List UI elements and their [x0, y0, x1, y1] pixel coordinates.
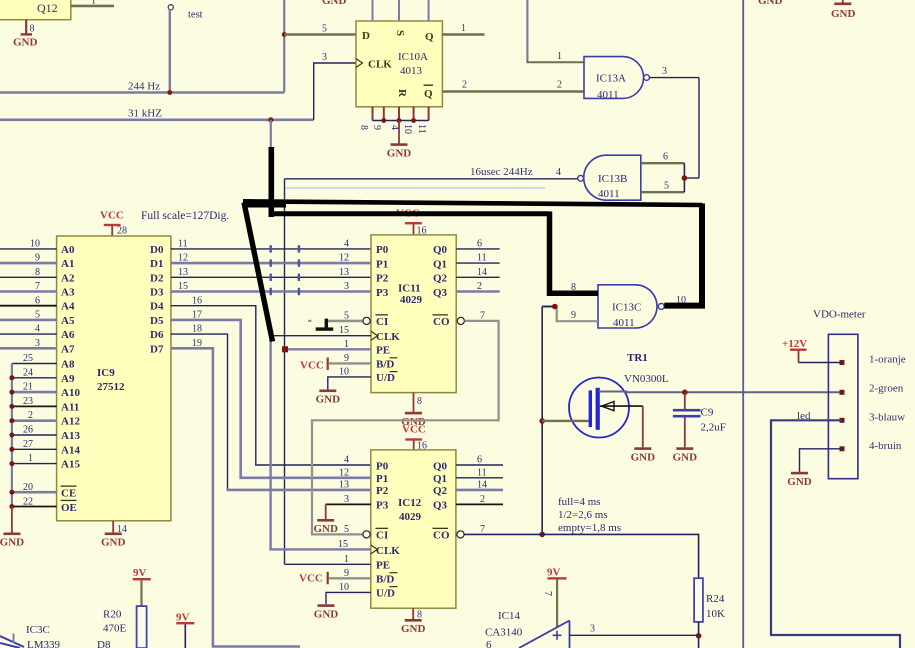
svg-text:3: 3 [344, 494, 349, 505]
svg-text:A14: A14 [61, 444, 80, 456]
svg-text:IC9: IC9 [97, 367, 115, 379]
svg-text:Q0: Q0 [433, 244, 448, 256]
junction PE tee [282, 346, 288, 352]
svg-text:4013: 4013 [400, 65, 423, 77]
svg-text:9V: 9V [547, 567, 561, 579]
wire IC11 B/D pin 9 [329, 362, 372, 364]
wires IC9 A0-A7 from left edge [0, 248, 57, 250]
IC12 pin numbers [338, 455, 349, 593]
wire IC12 P3 to ground [326, 503, 371, 505]
svg-text:A9: A9 [61, 373, 75, 385]
svg-text:9V: 9V [176, 612, 190, 624]
wire gate drive riser [541, 307, 543, 535]
svg-text:full=4 ms: full=4 ms [558, 496, 601, 508]
wire IC11 CO to IC12 CI cascade [457, 317, 464, 324]
wire IC11 CLK pin 15 [271, 335, 371, 337]
wire Q12 pin 1 [71, 5, 114, 8]
transistor Q12 (partial box top-left) [0, 0, 71, 20]
svg-text:3: 3 [344, 281, 349, 292]
svg-text:A6: A6 [61, 329, 75, 341]
svg-text:D0: D0 [150, 244, 164, 256]
svg-text:TR1: TR1 [627, 352, 648, 364]
svg-text:P2: P2 [376, 485, 389, 497]
svg-text:4029: 4029 [400, 294, 423, 306]
svg-text:IC12: IC12 [398, 497, 422, 509]
svg-text:Full scale=127Dig.: Full scale=127Dig. [141, 210, 229, 222]
svg-text:1/2=2,6 ms: 1/2=2,6 ms [558, 509, 608, 521]
svg-text:P1: P1 [376, 258, 388, 270]
svg-text:Q3: Q3 [433, 500, 448, 512]
wire R24 bottom [698, 622, 700, 648]
svg-text:A15: A15 [61, 459, 80, 471]
svg-text:A12: A12 [61, 416, 80, 428]
svg-text:VCC: VCC [299, 573, 323, 585]
svg-text:4: 4 [344, 455, 349, 466]
wire faint unused trace [286, 187, 546, 189]
wire IC12 Q1 stub [456, 477, 503, 479]
nand gate IC13B 4011 (mirrored) [584, 155, 641, 200]
wire IC11 Q2 stub [456, 276, 500, 278]
svg-text:10: 10 [30, 239, 40, 250]
junction 31kHz / clock riser [268, 117, 273, 122]
svg-text:Q3: Q3 [433, 287, 448, 299]
svg-text:27512: 27512 [97, 381, 125, 393]
junction D pin tee [282, 32, 287, 37]
junction gate riser / TR1 gate [539, 418, 545, 424]
svg-text:10: 10 [339, 582, 349, 593]
svg-text:7: 7 [480, 524, 485, 535]
svg-text:1: 1 [28, 453, 33, 464]
wire TR1 gate from riser [542, 420, 588, 422]
wire IC9 ground bus vertical [11, 364, 13, 509]
wire test point down to 244Hz line [169, 10, 171, 93]
svg-text:P2: P2 [376, 273, 389, 285]
IC11 pin numbers [339, 239, 349, 378]
thick highlight wire: right vertical to IC13C output 10 [664, 204, 702, 306]
svg-text:IC3C: IC3C [26, 624, 50, 636]
ground at connector pin 4 [787, 472, 812, 488]
svg-text:11: 11 [178, 239, 188, 250]
svg-text:3: 3 [322, 52, 327, 63]
svg-text:8: 8 [30, 24, 35, 35]
wire long vertical rail [742, 0, 744, 648]
svg-text:PE: PE [376, 345, 390, 357]
svg-text:D8: D8 [97, 639, 111, 648]
svg-text:1: 1 [461, 23, 466, 34]
junction drain / C9 [682, 390, 688, 396]
ground top right corner [842, 0, 844, 3]
wire stubs above IC10A [372, 0, 374, 21]
ground at TR1 [631, 447, 656, 463]
svg-text:9V: 9V [133, 567, 147, 579]
svg-text:D3: D3 [150, 287, 164, 299]
svg-text:CLK: CLK [368, 59, 392, 71]
svg-text:R: R [396, 89, 408, 98]
connector pin squares [840, 360, 845, 365]
svg-text:24: 24 [23, 367, 33, 378]
ground at IC11 U/D [316, 390, 341, 406]
wire TR1 drain to connector pin 2 [599, 391, 842, 394]
svg-text:11: 11 [477, 467, 487, 478]
junction dots on ground bus [9, 375, 14, 509]
svg-text:10K: 10K [706, 608, 725, 620]
svg-text:U/D: U/D [376, 372, 395, 384]
junction test/244Hz [167, 90, 172, 95]
svg-text:CI: CI [376, 530, 388, 542]
wire D2 to IC11 P2 [171, 276, 371, 278]
wire IC12 PE pin 1 [285, 563, 371, 565]
wire 31 kHZ horizontal [0, 119, 314, 122]
svg-text:244 Hz: 244 Hz [128, 81, 160, 93]
junction bus dots [381, 118, 386, 123]
wire D3 to IC11 P3 [171, 290, 371, 293]
wire D7 routed down to comparator [171, 348, 300, 646]
junction IC13B inputs [682, 175, 688, 181]
wire 244Hz up to D pin (IC10A) [283, 35, 285, 93]
svg-text:25: 25 [23, 353, 33, 364]
wire TR1 source/body with arrow [600, 405, 643, 407]
svg-text:VCC: VCC [300, 360, 324, 372]
wire IC11 CI pin 5 [327, 320, 363, 323]
node test point [168, 5, 173, 10]
wire IC11 Q0 stub [456, 248, 500, 250]
svg-text:2: 2 [462, 80, 467, 91]
svg-text:1: 1 [91, 0, 96, 7]
svg-text:B/D: B/D [376, 574, 394, 586]
svg-text:2-groen: 2-groen [869, 383, 904, 395]
wire IC12 Q0 stub [456, 464, 503, 466]
svg-text:7: 7 [480, 310, 485, 321]
svg-text:15: 15 [338, 539, 348, 550]
svg-text:IC13A: IC13A [596, 73, 626, 85]
svg-text:16usec 244Hz: 16usec 244Hz [470, 166, 533, 178]
resistor R20 470E [137, 606, 147, 648]
svg-text:Q2: Q2 [433, 273, 448, 285]
svg-text:A3: A3 [61, 287, 75, 299]
nand gate IC13A 4011 [584, 57, 644, 99]
svg-text:1-oranje: 1-oranje [869, 354, 906, 366]
wire CLK riser down to IC12 CLK [271, 337, 371, 550]
svg-text:13: 13 [178, 267, 188, 278]
capacitor C9 2,2uF [684, 392, 686, 409]
svg-text:GND: GND [13, 37, 38, 49]
svg-text:7: 7 [542, 591, 553, 596]
svg-text:3: 3 [662, 66, 667, 77]
svg-text:5: 5 [322, 24, 327, 35]
svg-text:D: D [362, 30, 370, 42]
wire pin 4 to ground [800, 449, 843, 472]
svg-text:6: 6 [663, 152, 668, 163]
svg-text:16: 16 [192, 295, 202, 306]
IC9 data pin names [150, 244, 164, 355]
ground below IC10A [398, 121, 400, 144]
svg-text:A8: A8 [61, 359, 75, 371]
memory IC9 27512 body [57, 236, 171, 521]
svg-text:C9: C9 [701, 407, 714, 419]
svg-text:1: 1 [557, 51, 562, 62]
wire riser 31kHz to thick segment [270, 120, 272, 150]
svg-text:28: 28 [117, 226, 127, 237]
svg-text:470E: 470E [103, 623, 127, 635]
wire IC11 pin 8 to ground [413, 393, 415, 412]
svg-text:15: 15 [178, 281, 188, 292]
svg-text:D7: D7 [150, 343, 164, 355]
svg-text:IC10A: IC10A [398, 51, 428, 63]
wire IC12 B/D pin 9 [329, 577, 371, 579]
svg-text:4011: 4011 [597, 89, 619, 101]
wire IC13B pin 5 [641, 191, 685, 193]
svg-text:11: 11 [477, 253, 487, 264]
svg-text:P3: P3 [376, 500, 389, 512]
wire D4 routed to IC12 P0 [171, 306, 371, 465]
svg-text:VDO-meter: VDO-meter [813, 309, 866, 321]
thick highlight wire: upper horizontal H1 [243, 201, 703, 205]
thick highlight wire: diagonal to IC11 CLK [244, 203, 273, 342]
wire IC13B input bus vertical [683, 163, 685, 192]
svg-text:A0: A0 [61, 244, 75, 256]
svg-text:R24: R24 [706, 593, 725, 605]
wire PE riser (pin4 net down to PE pins) [284, 179, 286, 565]
svg-text:14: 14 [477, 267, 487, 278]
wire IC11 Q1 stub [456, 262, 500, 264]
svg-text:IC11: IC11 [398, 283, 421, 295]
IC9 left pin numbers [23, 239, 40, 508]
ground at IC12 U/D [314, 604, 339, 620]
svg-text:8: 8 [358, 125, 369, 130]
svg-text:CO: CO [433, 316, 450, 328]
svg-text:11: 11 [416, 124, 427, 134]
ground GND below Q12 [21, 33, 32, 35]
svg-text:CA3140: CA3140 [485, 627, 523, 639]
svg-text:A13: A13 [61, 430, 80, 442]
svg-text:CLK: CLK [376, 545, 400, 557]
wire Q output pin 1 [442, 33, 484, 35]
svg-text:17: 17 [192, 310, 202, 321]
wire stray dash near CI [308, 320, 312, 322]
svg-text:A4: A4 [61, 301, 75, 313]
counter IC11 4029 body [371, 235, 456, 393]
IC9 address pin names [61, 244, 80, 514]
svg-text:6: 6 [477, 239, 482, 250]
wire 16usec 244Hz to IC13B pin 4 [285, 178, 578, 180]
svg-text:18: 18 [192, 324, 202, 335]
wires IC9 A8-A15 stubs to ground bus [12, 363, 57, 365]
svg-text:3: 3 [590, 624, 595, 635]
ground at C9 [673, 447, 698, 463]
svg-text:IC13B: IC13B [598, 173, 627, 185]
wire D6 routed to IC12 P2 [171, 334, 228, 490]
svg-text:A1: A1 [61, 258, 74, 270]
svg-text:GND: GND [758, 0, 783, 7]
wire D input pin 5 [284, 33, 356, 35]
svg-text:A2: A2 [61, 272, 75, 284]
svg-text:2: 2 [480, 494, 485, 505]
svg-text:23: 23 [23, 396, 33, 407]
svg-text:8: 8 [417, 396, 422, 407]
svg-text:8: 8 [35, 267, 40, 278]
svg-text:12: 12 [339, 467, 349, 478]
svg-text:P0: P0 [376, 460, 389, 472]
svg-text:5: 5 [664, 181, 669, 192]
svg-text:CE: CE [61, 488, 76, 500]
svg-text:IC14: IC14 [498, 610, 521, 622]
svg-text:A11: A11 [61, 401, 79, 413]
svg-text:1: 1 [344, 554, 349, 565]
wire IC12 CO pin 7 to R24 [457, 531, 464, 538]
svg-text:Q2: Q2 [433, 485, 448, 497]
svg-text:VN0300L: VN0300L [624, 373, 669, 385]
wire IC12 U/D pin 10 to ground [326, 592, 371, 604]
svg-text:Q1: Q1 [433, 258, 447, 270]
junction pin9 corner [552, 304, 558, 310]
wire CLK riser from 31kHz to pin 3 [314, 63, 356, 120]
svg-text:31 kHZ: 31 kHZ [128, 108, 162, 120]
svg-text:19: 19 [192, 338, 202, 349]
svg-text:GND: GND [831, 8, 856, 20]
svg-text:8: 8 [417, 610, 422, 621]
resistor R24 10K [694, 578, 703, 622]
ground for address bus [11, 507, 13, 533]
wire LM339 partial symbol [0, 636, 24, 647]
wire IC11 Q3 stub [456, 290, 500, 293]
svg-text:6: 6 [486, 639, 492, 648]
svg-text:R20: R20 [103, 609, 122, 621]
transistor TR1 VN0300L mosfet [569, 378, 629, 438]
svg-text:6: 6 [35, 295, 40, 306]
svg-text:CLK: CLK [376, 331, 400, 343]
svg-text:P3: P3 [376, 287, 389, 299]
ground at IC12 P3 [313, 519, 338, 535]
svg-text:CO: CO [433, 530, 450, 542]
wire pin3 down to IC13B input bus [698, 78, 700, 178]
svg-text:U/D: U/D [376, 588, 395, 600]
svg-text:D6: D6 [150, 329, 164, 341]
svg-text:A7: A7 [61, 343, 75, 355]
svg-text:9: 9 [371, 125, 382, 130]
svg-text:12: 12 [178, 253, 188, 264]
svg-text:5: 5 [344, 524, 349, 535]
svg-text:VCC: VCC [402, 424, 426, 436]
svg-text:26: 26 [23, 425, 33, 436]
svg-text:4011: 4011 [598, 188, 620, 200]
svg-text:P1: P1 [376, 473, 388, 485]
svg-text:4029: 4029 [399, 511, 422, 523]
svg-text:27: 27 [23, 439, 33, 450]
wire OE stub [12, 506, 57, 508]
svg-text:P0: P0 [376, 244, 389, 256]
wire IC12 pin 8 to ground [412, 608, 414, 619]
wire D0 to IC11 P0 [171, 248, 371, 250]
node bus crossing dashes [271, 245, 299, 295]
junction R24 / opamp output [696, 633, 702, 639]
svg-text:2,2uF: 2,2uF [701, 422, 726, 434]
svg-text:4-bruin: 4-bruin [869, 440, 902, 452]
svg-text:test: test [188, 10, 203, 21]
wire IC12 Q3 stub [456, 503, 503, 505]
wire IC12 Q2 stub [456, 489, 503, 492]
flip-flop IC10A 4013 body [356, 21, 442, 107]
wire IC11 U/D pin 10 to ground [328, 377, 371, 390]
wire Q12 pin 8 to ground [25, 20, 27, 34]
thick highlight wire: drop to IC13C pin 8 [550, 212, 599, 294]
svg-text:S: S [394, 30, 406, 36]
thick highlight wire: vertical from 31kHz [268, 147, 274, 217]
svg-text:D1: D1 [150, 258, 163, 270]
svg-text:D2: D2 [150, 272, 164, 284]
wire opamp output pin 3 [570, 634, 699, 636]
wire IC12 CI pin 5 bubble [363, 531, 370, 538]
wire TR1 source to ground [642, 406, 644, 447]
wire 244 Hz horizontal [0, 91, 284, 94]
wire IC13A pin 1 input from top [527, 0, 584, 62]
svg-text:Q: Q [425, 31, 434, 43]
svg-text:PE: PE [376, 560, 390, 572]
svg-text:OE: OE [61, 502, 77, 514]
wire D5 routed to IC12 P1 [171, 320, 371, 478]
wire IC13B pin 6 [641, 162, 685, 164]
svg-text:13: 13 [339, 480, 349, 491]
wire D1 to IC11 P1 [171, 262, 371, 265]
svg-text:Q0: Q0 [433, 460, 448, 472]
thick highlight wire: lower horizontal H2 [269, 211, 550, 216]
svg-text:empty=1,8 ms: empty=1,8 ms [558, 522, 621, 534]
svg-text:4011: 4011 [613, 317, 635, 329]
svg-text:Q12: Q12 [37, 1, 58, 15]
counter IC12 4029 body [371, 450, 456, 608]
wire IC10A bottom pin stubs [372, 107, 374, 121]
svg-text:Q1: Q1 [433, 473, 447, 485]
svg-text:GND: GND [322, 0, 347, 7]
svg-text:LM339: LM339 [27, 639, 61, 648]
svg-text:+12V: +12V [782, 338, 807, 350]
node logic-low tick on CI [316, 327, 334, 330]
svg-text:2: 2 [557, 80, 562, 91]
svg-text:9: 9 [571, 310, 576, 321]
wire IC11 PE pin 1 [285, 348, 371, 350]
svg-text:B/D: B/D [376, 359, 394, 371]
svg-text:4: 4 [35, 324, 40, 335]
svg-text:10: 10 [402, 124, 413, 134]
svg-text:3-blauw: 3-blauw [869, 412, 905, 424]
wire CE stub [12, 491, 57, 494]
svg-text:VCC: VCC [100, 210, 124, 222]
svg-text:4: 4 [344, 239, 349, 250]
svg-text:A10: A10 [61, 387, 80, 399]
svg-text:CI: CI [376, 316, 388, 328]
wire IC9 pin 14 to ground [112, 521, 114, 533]
junction gate riser / CO wire [539, 532, 545, 538]
svg-text:Q: Q [424, 88, 433, 100]
connector J1 body [828, 334, 858, 478]
svg-text:D5: D5 [150, 315, 164, 327]
wire Qbar output pin 2 to IC13A [442, 90, 584, 93]
svg-text:12: 12 [339, 253, 349, 264]
wire IC13C pin 9 input net [542, 307, 598, 322]
wire IC10A ground bus [373, 120, 429, 122]
svg-text:15: 15 [339, 325, 349, 336]
svg-text:13: 13 [339, 267, 349, 278]
svg-text:IC13C: IC13C [612, 302, 641, 314]
svg-text:10: 10 [339, 366, 349, 377]
svg-text:4: 4 [556, 167, 561, 178]
wire IC13A output pin 3 [650, 77, 699, 79]
svg-text:D4: D4 [150, 301, 164, 313]
nand gate IC13C 4011 [598, 285, 657, 328]
svg-text:6: 6 [477, 455, 482, 466]
svg-text:A5: A5 [61, 315, 75, 327]
